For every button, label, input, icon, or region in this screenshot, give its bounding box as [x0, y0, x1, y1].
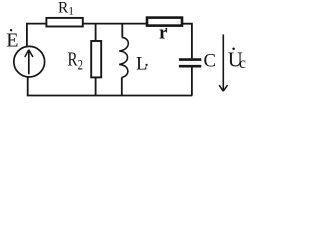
svg-text:r: r [159, 23, 168, 44]
wire R2 bottom stub [95, 77, 97, 95]
wire top rail R1 to r [83, 23, 147, 25]
wire source bottom to bottom rail [27, 78, 29, 96]
svg-text:C: C [204, 50, 217, 71]
wire L top stub [121, 24, 123, 38]
wire from source top to top rail [27, 24, 46, 46]
svg-text:c: c [239, 55, 246, 72]
voltage source E [14, 46, 45, 77]
inductor L [119, 38, 128, 78]
wire L bottom stub [121, 77, 123, 95]
capacitor C [179, 60, 201, 67]
svg-text:R2: R2 [68, 48, 83, 73]
wire capacitor bottom stub [191, 67, 193, 95]
wire r to capacitor branch [183, 24, 192, 59]
svg-text:E: E [6, 29, 18, 51]
label E [6, 29, 18, 51]
label Uc [228, 48, 246, 72]
wire R2 top stub [95, 24, 97, 41]
label L [136, 54, 148, 75]
svg-text:R1: R1 [58, 0, 74, 18]
resistor R1 [46, 18, 82, 27]
arrow Uc [219, 34, 227, 91]
resistor R2 [91, 41, 101, 77]
resistor r [147, 18, 182, 26]
label r [159, 23, 168, 44]
wire bottom rail [27, 95, 192, 97]
